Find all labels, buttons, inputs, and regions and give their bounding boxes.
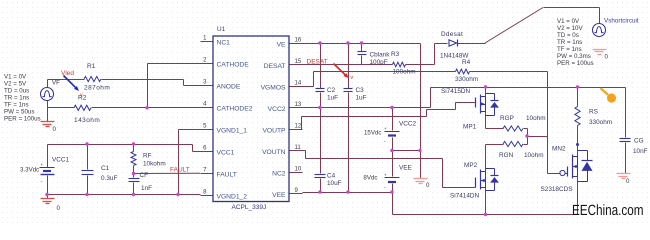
svg-text:Cblank: Cblank [370, 52, 391, 59]
svg-text:R4: R4 [462, 59, 471, 66]
svg-text:10kohm: 10kohm [143, 161, 166, 168]
svg-text:+: + [384, 126, 387, 131]
svg-text:CATHODE2: CATHODE2 [217, 106, 253, 113]
svg-text:RGN: RGN [499, 152, 514, 159]
svg-text:15Vdc: 15Vdc [364, 130, 382, 137]
svg-text:VF: VF [52, 80, 60, 87]
svg-text:VOUTN: VOUTN [262, 149, 286, 156]
svg-text:-: - [41, 179, 43, 185]
svg-text:DESAT: DESAT [264, 63, 286, 70]
svg-text:C1: C1 [101, 165, 110, 172]
svg-text:PER = 100us: PER = 100us [4, 116, 41, 123]
svg-text:VCC2: VCC2 [399, 121, 416, 128]
svg-text:R2: R2 [78, 95, 87, 102]
svg-text:FAULT: FAULT [217, 172, 237, 179]
svg-text:TR = 1ns: TR = 1ns [4, 95, 29, 102]
svg-text:330ohm: 330ohm [455, 76, 478, 83]
svg-text:0: 0 [426, 182, 430, 189]
svg-text:10: 10 [295, 167, 302, 173]
svg-text:0: 0 [57, 205, 61, 212]
svg-text:Si7415DN: Si7415DN [441, 88, 471, 95]
svg-text:8Vdc: 8Vdc [363, 175, 377, 182]
svg-text:U1: U1 [217, 26, 226, 33]
svg-text:CG: CG [634, 138, 644, 145]
svg-text:PW = 0.3ms: PW = 0.3ms [557, 53, 591, 60]
svg-text:TD = 0us: TD = 0us [4, 88, 29, 95]
svg-text:MN2: MN2 [552, 146, 566, 153]
svg-text:TF = 1ns: TF = 1ns [557, 46, 582, 53]
svg-text:VCC1: VCC1 [52, 157, 69, 164]
svg-text:143ohm: 143ohm [74, 117, 100, 124]
svg-text:ACPL_339J: ACPL_339J [232, 204, 267, 211]
svg-text:100ohm: 100ohm [393, 69, 416, 76]
svg-text:10nF: 10nF [633, 148, 648, 155]
svg-text:3.3Vdc: 3.3Vdc [20, 167, 39, 174]
svg-text:MP1: MP1 [463, 124, 477, 131]
svg-text:Ddesat: Ddesat [441, 31, 463, 38]
svg-text:0.3uF: 0.3uF [101, 175, 117, 182]
svg-text:Vshortcircuit: Vshortcircuit [604, 18, 639, 25]
svg-text:RS: RS [589, 109, 598, 116]
svg-text:+: + [41, 162, 44, 167]
svg-text:TD = 0s: TD = 0s [557, 32, 579, 39]
svg-text:R3: R3 [391, 51, 400, 58]
svg-text:10ohm: 10ohm [524, 152, 544, 159]
svg-text:FAULT: FAULT [170, 167, 190, 174]
svg-text:V1 = 0V: V1 = 0V [4, 74, 27, 81]
svg-text:RF: RF [143, 153, 152, 160]
svg-text:Vled: Vled [61, 70, 74, 77]
svg-text:MP2: MP2 [464, 162, 478, 169]
svg-text:PW = 50us: PW = 50us [4, 109, 34, 116]
svg-text:PER = 100us: PER = 100us [557, 60, 594, 67]
svg-text:S2318CDS: S2318CDS [541, 186, 573, 193]
svg-text:15: 15 [295, 59, 302, 65]
svg-text:V1 = 0V: V1 = 0V [557, 18, 580, 25]
svg-text:CF: CF [140, 172, 149, 179]
svg-text:VOUTP: VOUTP [262, 128, 286, 135]
svg-text:NC1: NC1 [217, 40, 231, 47]
svg-text:C2: C2 [327, 87, 336, 94]
svg-text:VEE: VEE [272, 192, 286, 199]
svg-text:Si7414DN: Si7414DN [450, 193, 480, 200]
svg-text:C4: C4 [327, 173, 336, 180]
svg-text:10ohm: 10ohm [526, 115, 546, 122]
svg-text:VGND1_2: VGND1_2 [217, 194, 248, 201]
svg-text:ANODE: ANODE [217, 84, 241, 91]
svg-text:10uF: 10uF [327, 180, 342, 187]
svg-text:0: 0 [53, 126, 57, 133]
svg-text:DESAT: DESAT [307, 59, 328, 66]
svg-text:11: 11 [295, 145, 302, 151]
svg-text:C3: C3 [356, 87, 365, 94]
svg-text:1uF: 1uF [356, 95, 367, 102]
svg-text:16: 16 [295, 38, 302, 44]
svg-text:VE: VE [277, 42, 286, 49]
svg-text:+: + [384, 173, 387, 178]
svg-text:287ohm: 287ohm [84, 85, 110, 92]
svg-text:TF = 1ns: TF = 1ns [4, 102, 29, 109]
svg-text:0: 0 [626, 178, 630, 185]
svg-text:NC2: NC2 [272, 171, 286, 178]
svg-text:RGP: RGP [500, 115, 514, 122]
svg-text:VEE: VEE [399, 165, 412, 172]
svg-text:330ohm: 330ohm [589, 119, 612, 126]
svg-text:0: 0 [605, 54, 609, 61]
svg-text:VGMOS: VGMOS [261, 85, 286, 92]
svg-text:1uF: 1uF [327, 95, 338, 102]
svg-text:VCC2: VCC2 [268, 106, 286, 113]
svg-text:14: 14 [295, 81, 302, 87]
svg-text:VGND1_1: VGND1_1 [217, 128, 248, 135]
svg-text:100pF: 100pF [370, 59, 388, 66]
svg-text:R1: R1 [87, 63, 96, 70]
svg-text:12: 12 [295, 124, 302, 130]
svg-text:1nF: 1nF [141, 185, 152, 192]
svg-text:CATHODE: CATHODE [217, 62, 250, 69]
svg-text:V2 = 5V: V2 = 5V [4, 81, 27, 88]
svg-text:13: 13 [295, 102, 302, 108]
svg-text:TR = 1ns: TR = 1ns [557, 39, 582, 46]
svg-text:VCC1: VCC1 [217, 150, 235, 157]
svg-text:V2 = 10V: V2 = 10V [557, 25, 584, 32]
